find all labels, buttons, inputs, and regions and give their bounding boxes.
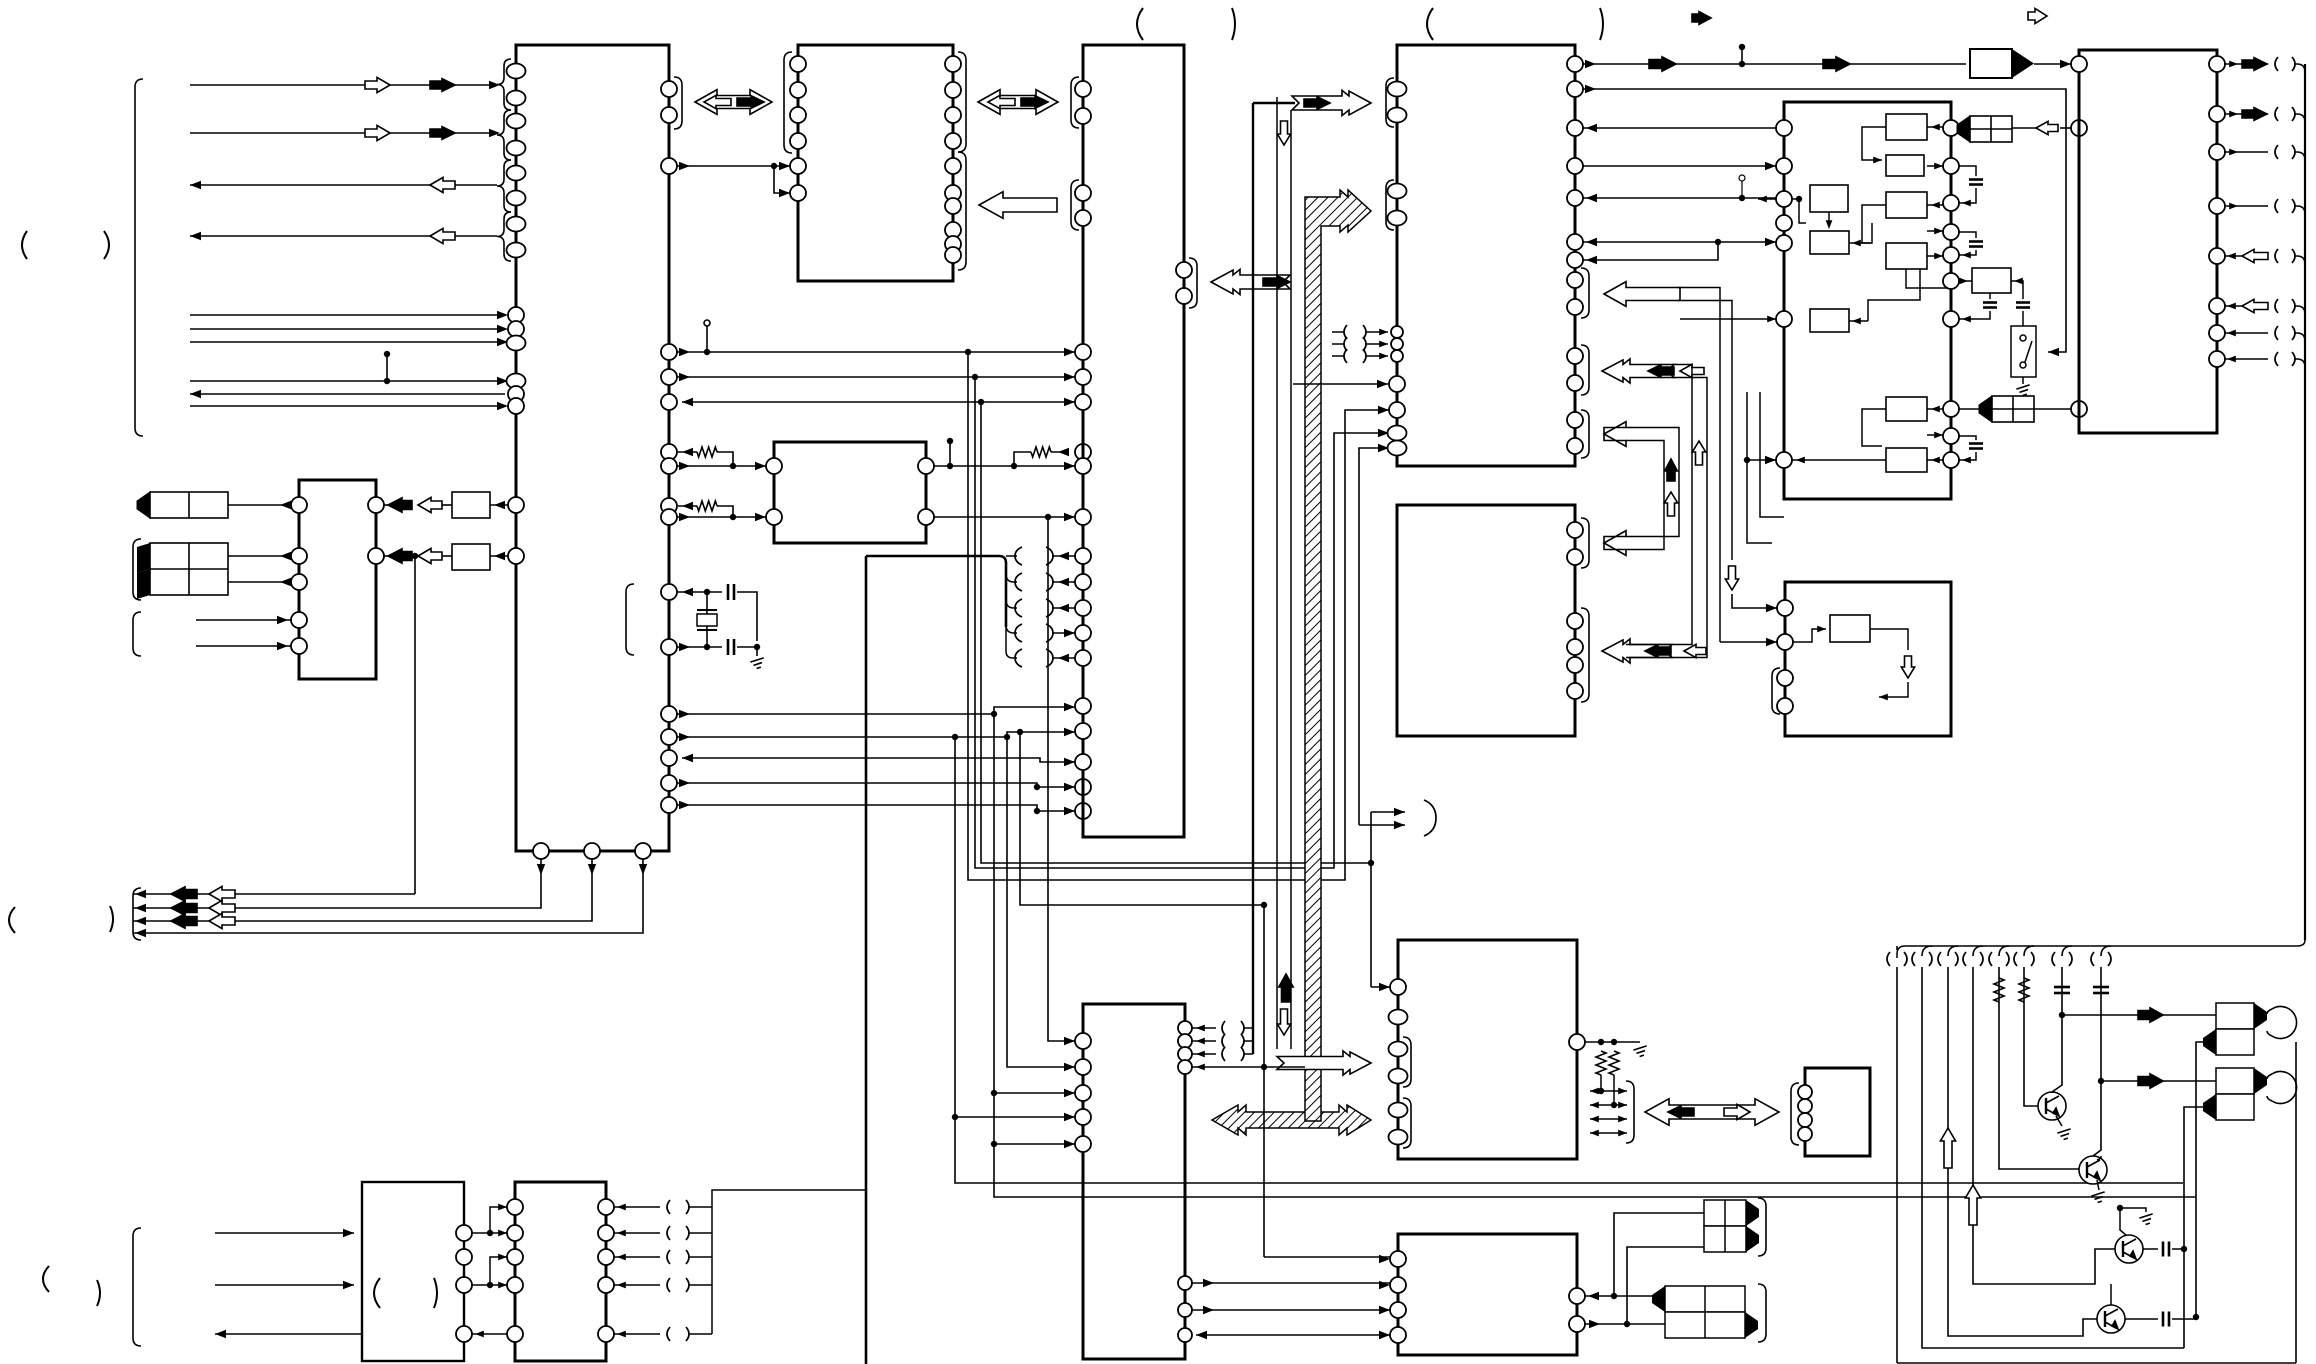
filled arrow inside bbox=[737, 96, 764, 109]
break symbol bbox=[2275, 326, 2295, 340]
wire bbox=[2294, 306, 2305, 314]
open arrow to D low bbox=[1604, 422, 1626, 447]
wire F-D y128 bbox=[1583, 127, 1776, 129]
wire web 4a bbox=[994, 1092, 1075, 1094]
pin IC A left bbox=[507, 243, 526, 258]
leg6 bbox=[2024, 967, 2038, 1106]
pin H left bbox=[1075, 1085, 1091, 1101]
junction bbox=[2181, 1246, 2187, 1252]
open arrow bbox=[430, 177, 455, 192]
wire bbox=[1332, 355, 1344, 357]
arrowhead bbox=[679, 643, 690, 651]
pin M right bbox=[918, 458, 934, 474]
chain bbox=[717, 506, 733, 517]
bracket E right 2 bbox=[1581, 608, 1589, 702]
motor tri 4 bbox=[1745, 1312, 1758, 1338]
pin O right bbox=[598, 1249, 614, 1265]
pin F right bbox=[1943, 311, 1959, 327]
resistor bbox=[1031, 447, 1051, 457]
pin B left bbox=[790, 133, 806, 149]
link4 bbox=[1879, 682, 1908, 697]
link bbox=[1927, 434, 1943, 436]
filled arrow inside bbox=[1648, 365, 1674, 378]
pin F left bbox=[1776, 215, 1792, 231]
paren label bbox=[434, 1278, 437, 1308]
IC B memory block bbox=[798, 45, 953, 281]
channel D294 b bbox=[1678, 301, 1732, 561]
junction bbox=[1017, 729, 1023, 735]
pin C left bbox=[1075, 210, 1091, 226]
Q2 col link bbox=[2097, 1156, 2101, 1160]
open arrow bbox=[209, 886, 235, 901]
O-N link3 bbox=[472, 1333, 507, 1335]
wire G out bbox=[2225, 255, 2268, 257]
arrowhead bbox=[682, 502, 693, 510]
junction bbox=[1715, 239, 1721, 245]
pin IC A left bbox=[507, 374, 526, 389]
filled arrow bbox=[2242, 108, 2267, 121]
IC E block bbox=[1397, 505, 1575, 736]
right paren label bbox=[104, 231, 109, 259]
junction bbox=[1045, 514, 1051, 520]
pin F right bbox=[1943, 401, 1959, 417]
bus mini wire bbox=[1590, 1104, 1627, 1106]
wire down from display junction bbox=[414, 556, 416, 894]
pin C left bbox=[1075, 698, 1091, 714]
pin IC A bottom bbox=[584, 843, 600, 859]
pin I left bbox=[1389, 1069, 1408, 1084]
Q1 gnd lnk bbox=[2056, 1116, 2062, 1126]
vertical x1264 bbox=[1263, 905, 1265, 1257]
pin O left bbox=[507, 1199, 523, 1215]
pin H left bbox=[1075, 1033, 1091, 1049]
stub circle bbox=[1739, 175, 1745, 181]
break symbol bbox=[1912, 952, 1932, 966]
wire A-C low3 bbox=[682, 758, 1075, 762]
arrowhead bbox=[280, 578, 291, 586]
capacitor bbox=[1983, 303, 1997, 308]
jack tri out2 bbox=[2254, 1068, 2267, 1094]
paren label bbox=[1600, 8, 1603, 40]
pin B right bbox=[945, 107, 961, 123]
link r9 out bbox=[1882, 459, 1886, 461]
pin B right bbox=[945, 82, 961, 98]
pin IC A left bbox=[508, 307, 524, 323]
arrowhead bbox=[489, 129, 500, 137]
pin B right bbox=[945, 56, 961, 72]
cap to switch bbox=[2022, 311, 2024, 326]
arrowhead bbox=[2060, 60, 2071, 68]
chain bbox=[717, 452, 733, 466]
arrowhead bbox=[779, 162, 790, 170]
arrowhead bbox=[1590, 1102, 1599, 1109]
pin H2 left bbox=[1777, 670, 1793, 686]
cap loop 2 bbox=[1959, 232, 1976, 238]
pin I left bbox=[1389, 1010, 1408, 1025]
break symbol bbox=[2014, 952, 2034, 966]
pin M left bbox=[766, 458, 782, 474]
motor tri 3 bbox=[1652, 1286, 1665, 1312]
open arrow bbox=[2242, 299, 2268, 312]
pin IC A right bbox=[661, 81, 677, 97]
leg corner bbox=[1948, 946, 1958, 956]
pin I left bbox=[1389, 1042, 1408, 1057]
arrowhead bbox=[1064, 398, 1075, 406]
pin display right bbox=[368, 497, 384, 513]
pin N right bbox=[456, 1225, 472, 1241]
link bbox=[1793, 629, 1826, 642]
junction bbox=[1004, 734, 1010, 740]
brace IC A left pins bbox=[497, 160, 511, 212]
arrowhead bbox=[135, 917, 146, 925]
break paren L bbox=[1015, 547, 1022, 565]
link F left low bbox=[1792, 459, 1882, 461]
pull-up stub bbox=[949, 441, 951, 466]
arrowhead bbox=[2229, 111, 2238, 118]
arrowhead bbox=[1064, 1140, 1075, 1148]
pin N right bbox=[456, 1249, 472, 1265]
bracket C left 2 bbox=[1071, 180, 1079, 230]
cascade branch wire bbox=[1006, 555, 1017, 557]
bus mini wire bbox=[1590, 1090, 1627, 1092]
arrowhead bbox=[1196, 1038, 1205, 1045]
arrowhead bbox=[494, 501, 505, 509]
ext filter box bbox=[1972, 268, 2011, 293]
IC G block bbox=[2079, 50, 2217, 433]
wire G out bbox=[2225, 113, 2268, 115]
break symbol bbox=[1222, 1034, 1244, 1048]
arrowhead bbox=[1765, 162, 1776, 170]
wire F pin409 bbox=[1959, 408, 1979, 410]
arrowhead bbox=[1962, 457, 1971, 464]
bracket inputs bbox=[133, 612, 141, 656]
paren label bbox=[9, 907, 15, 933]
break symbol bbox=[2275, 249, 2295, 263]
break symbol bbox=[2052, 952, 2072, 966]
leg2 bbox=[1922, 967, 2184, 1348]
cap loop 1b bbox=[1959, 188, 1976, 203]
switch contacts bbox=[2020, 335, 2032, 368]
stub riser B bbox=[1359, 448, 1389, 825]
pin B left bbox=[790, 56, 806, 72]
pin B right bbox=[945, 198, 961, 214]
link bbox=[1927, 204, 1943, 206]
pin H right low bbox=[1178, 1303, 1192, 1317]
leg corner bbox=[1999, 946, 2009, 956]
wire bbox=[2034, 63, 2071, 65]
pin C left bbox=[1075, 108, 1091, 124]
arrowhead bbox=[475, 1331, 484, 1338]
arrowhead bbox=[617, 1230, 626, 1237]
arrowhead bbox=[1064, 728, 1075, 736]
display tube symbol bbox=[137, 492, 228, 518]
pin D right bbox=[1567, 158, 1583, 174]
arrowhead bbox=[1064, 348, 1075, 356]
arrowhead bbox=[498, 1254, 507, 1261]
arrowhead bbox=[679, 710, 690, 718]
N-O link1 bbox=[472, 1232, 507, 1234]
transistor Q3 bbox=[2115, 1235, 2143, 1263]
leg4 bbox=[1973, 967, 2115, 1284]
ground bbox=[2139, 1214, 2152, 1225]
pin F right bbox=[1943, 224, 1959, 240]
filled arrow bbox=[171, 901, 197, 915]
pin I left bbox=[1389, 1103, 1408, 1118]
bus mini wire bbox=[1590, 1132, 1627, 1134]
leg corner bbox=[2062, 946, 2072, 956]
pin F right bbox=[1943, 428, 1959, 444]
junction bbox=[2098, 1078, 2104, 1084]
arrowhead bbox=[1058, 448, 1069, 456]
arrowhead bbox=[617, 1282, 626, 1289]
chain bbox=[934, 465, 1075, 467]
wire bbox=[228, 581, 291, 583]
arrowhead bbox=[1058, 552, 1069, 560]
pin J left bbox=[1390, 1327, 1406, 1343]
arrowhead bbox=[1826, 220, 1833, 229]
paren label bbox=[374, 1278, 380, 1308]
pin IC A left bbox=[507, 191, 526, 206]
pin J left bbox=[1390, 1302, 1406, 1318]
arrowhead bbox=[1931, 124, 1940, 131]
junction bbox=[978, 399, 984, 405]
open arrow bbox=[209, 913, 235, 928]
arrowhead bbox=[1962, 316, 1971, 323]
capacitor bbox=[1969, 242, 1983, 247]
arrowhead bbox=[679, 373, 690, 381]
sub R7 bbox=[1886, 243, 1927, 269]
pin H right low bbox=[1178, 1276, 1192, 1290]
link r8 loop bbox=[1862, 409, 1886, 446]
open down arrow bbox=[1277, 121, 1290, 145]
pin D right bbox=[1567, 272, 1583, 288]
pin E right bbox=[1567, 522, 1583, 538]
pin D left bbox=[1388, 108, 1407, 123]
arrowhead bbox=[679, 779, 690, 787]
bottom line 1 bbox=[1897, 1362, 2296, 1364]
chain bbox=[677, 465, 766, 467]
jack circle bbox=[2267, 1006, 2297, 1038]
arrowhead bbox=[280, 552, 291, 560]
break paren R bbox=[1046, 624, 1053, 642]
leg corner bbox=[2101, 946, 2111, 956]
bracket bbox=[674, 77, 682, 129]
wire web 3 bbox=[981, 402, 1371, 863]
open arrow bbox=[430, 228, 455, 243]
arrowhead bbox=[1379, 983, 1390, 991]
pin E right bbox=[1567, 549, 1583, 565]
wire bbox=[689, 1256, 712, 1258]
cascade tail bbox=[1006, 627, 1017, 658]
arrowhead bbox=[497, 325, 508, 333]
break symbol bbox=[1222, 1021, 1244, 1035]
filter right link bbox=[2011, 281, 2023, 299]
leg corner bbox=[2024, 946, 2034, 956]
break symbol bbox=[1344, 337, 1366, 351]
arrowhead bbox=[1379, 1255, 1390, 1263]
left paren label bbox=[22, 231, 27, 259]
wire bbox=[228, 504, 291, 506]
open arrow to D bbox=[1604, 282, 1680, 307]
arrowhead bbox=[1196, 1064, 1205, 1071]
bus white arrow to D bbox=[1292, 90, 1371, 115]
wire D-G top bbox=[1583, 63, 1966, 65]
wire riser 3 bbox=[133, 859, 643, 933]
pin J left bbox=[1390, 1251, 1406, 1267]
wire F-D y242 bbox=[1583, 241, 1776, 243]
pin C right bbox=[1176, 262, 1192, 278]
arrowhead bbox=[2014, 278, 2023, 285]
pin H2 left bbox=[1777, 634, 1793, 650]
break symbol bbox=[2275, 57, 2295, 71]
arrowhead bbox=[1817, 626, 1826, 633]
arrowhead bbox=[1766, 638, 1777, 646]
pin D left bbox=[1389, 376, 1405, 392]
jack tri out bbox=[2254, 1003, 2267, 1029]
arrowhead bbox=[498, 1282, 507, 1289]
bus mini wire bbox=[1590, 1118, 1627, 1120]
Q4 cap wire2 bbox=[2172, 1318, 2196, 1320]
open up arrow in channel 2 bbox=[1692, 441, 1705, 465]
filled arrow bbox=[2138, 1008, 2163, 1022]
wire web 4b bbox=[994, 1143, 1075, 1145]
paren bbox=[110, 906, 113, 932]
pin D right bbox=[1567, 299, 1583, 315]
filled arrow bbox=[430, 79, 455, 92]
ground bbox=[2016, 385, 2029, 396]
break symbol bbox=[1887, 952, 1907, 966]
paren label bbox=[1427, 8, 1433, 40]
pin G right bbox=[2209, 248, 2225, 264]
sub R3 bbox=[1810, 309, 1849, 332]
junction bbox=[2117, 1205, 2123, 1211]
wire bbox=[2060, 127, 2071, 129]
arrowhead bbox=[1585, 60, 1596, 68]
arrowhead bbox=[1379, 1281, 1390, 1289]
resistor bbox=[1596, 1051, 1606, 1075]
arrowhead bbox=[1379, 1306, 1390, 1314]
N-O riser1 bbox=[490, 1207, 507, 1233]
junction bbox=[991, 711, 997, 717]
pin M right bbox=[918, 509, 934, 525]
pin G right bbox=[2209, 106, 2225, 122]
resistor bbox=[2019, 978, 2029, 1002]
arrowhead bbox=[679, 162, 690, 170]
remote bus arrow bbox=[1645, 1099, 1779, 1126]
arrowhead bbox=[190, 232, 201, 240]
wire A-C low2 bbox=[677, 732, 1075, 737]
sub R5 bbox=[1886, 155, 1924, 176]
arrowhead bbox=[1765, 238, 1776, 246]
riser bbox=[1614, 1213, 1704, 1296]
link bbox=[1927, 459, 1943, 461]
wire A-C low5 bbox=[677, 805, 1075, 811]
break symbol bbox=[2275, 107, 2295, 121]
bus arrow B-C bbox=[978, 90, 1058, 115]
arrowhead bbox=[1064, 629, 1075, 637]
motor tri 1 bbox=[1746, 1200, 1759, 1226]
bus white arrow to I bbox=[1277, 1051, 1371, 1075]
sub R8 bbox=[1886, 397, 1927, 421]
wire A-C 2 bbox=[677, 376, 1075, 378]
bus entry rect bbox=[1970, 49, 2012, 78]
open arrow bbox=[365, 125, 390, 140]
open arrow inside bbox=[1724, 1104, 1750, 1119]
wire bbox=[2294, 64, 2305, 72]
pin G right bbox=[2209, 298, 2225, 314]
pin G right bbox=[2209, 325, 2225, 341]
wire bbox=[737, 646, 757, 648]
legend filled arrow bbox=[1692, 12, 1711, 25]
arrowhead bbox=[1758, 196, 1767, 203]
pin IC A right bbox=[661, 706, 677, 722]
wire bbox=[677, 646, 722, 648]
wire web 4 bbox=[994, 714, 2196, 1197]
jack rects 2 bbox=[2216, 1068, 2254, 1120]
junction bbox=[1034, 784, 1040, 790]
break symbol bbox=[667, 1226, 689, 1240]
hatched T bus bbox=[1212, 1105, 1371, 1135]
bracket motor 2 bbox=[1758, 1284, 1766, 1342]
pin IC A right bbox=[661, 775, 677, 791]
arrowhead bbox=[1931, 406, 1940, 413]
junction bbox=[1261, 902, 1267, 908]
tri bbox=[137, 569, 150, 599]
filter cap link bbox=[1989, 293, 1991, 299]
arrowhead bbox=[1852, 318, 1861, 325]
arrowhead bbox=[537, 864, 545, 875]
Q3 top bbox=[2120, 1208, 2126, 1235]
filled arrow inside bbox=[1645, 645, 1671, 658]
pin H right bbox=[1178, 1047, 1192, 1061]
wire C-A 3 bbox=[682, 401, 1075, 403]
arrowhead bbox=[1196, 1331, 1207, 1339]
stub bbox=[1741, 47, 1743, 64]
link bbox=[1927, 408, 1943, 410]
IC C block bbox=[1083, 45, 1184, 837]
wire key input bbox=[190, 341, 505, 343]
wire bbox=[1366, 355, 1388, 357]
junction bbox=[412, 553, 418, 559]
pin IC A right bbox=[661, 344, 677, 360]
arrowhead bbox=[1590, 1116, 1599, 1123]
pin F right bbox=[1943, 120, 1959, 136]
arrowhead bbox=[498, 1204, 507, 1211]
break paren L bbox=[1015, 649, 1022, 667]
filled arrow bbox=[1649, 57, 1676, 71]
junction bbox=[754, 644, 760, 650]
pin D right bbox=[1567, 438, 1583, 454]
Q3 cap wire2 bbox=[2172, 1248, 2184, 1250]
capacitor bbox=[1969, 180, 1983, 185]
leg corner bbox=[1973, 946, 1983, 956]
pin D left bbox=[1388, 426, 1407, 441]
pin B right bbox=[945, 133, 961, 149]
cap loop 1 bbox=[1959, 166, 1976, 176]
wire bbox=[1959, 280, 1972, 282]
break paren R bbox=[1046, 649, 1053, 667]
pin G right bbox=[2209, 144, 2225, 160]
buffer box 1 bbox=[452, 492, 490, 518]
arrowhead bbox=[779, 189, 790, 197]
arrowhead bbox=[1064, 1037, 1075, 1045]
wire bbox=[1052, 555, 1075, 557]
channel x1747 bbox=[1747, 392, 1772, 543]
junction bbox=[487, 1230, 493, 1236]
pin B right bbox=[945, 236, 961, 252]
pin C left bbox=[1075, 600, 1091, 616]
wire A to B bbox=[677, 165, 790, 167]
